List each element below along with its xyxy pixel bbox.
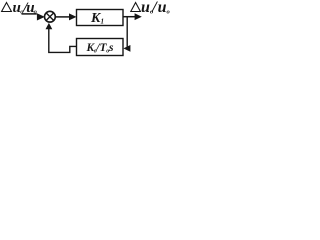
- svg-text:s: s: [108, 42, 114, 54]
- svg-text:1: 1: [101, 18, 105, 26]
- svg-text:u: u: [141, 0, 150, 16]
- svg-text:u: u: [158, 0, 167, 16]
